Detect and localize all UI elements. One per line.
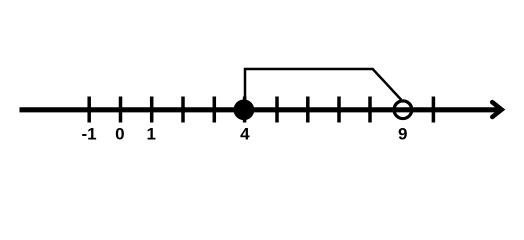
tick 0 bbox=[119, 97, 123, 123]
svg-text:9: 9 bbox=[398, 125, 407, 144]
tick -1 bbox=[87, 97, 91, 123]
arrowhead right bbox=[492, 102, 501, 117]
svg-text:1: 1 bbox=[146, 125, 155, 144]
open endpoint circle at 9 bbox=[394, 101, 412, 119]
tick 1 bbox=[150, 97, 154, 123]
svg-text:0: 0 bbox=[115, 125, 124, 144]
tick 8 bbox=[368, 97, 372, 123]
closed endpoint circle at 4 bbox=[234, 99, 255, 120]
tick 2 bbox=[181, 97, 185, 123]
interval bracket from 4 to 9 bbox=[245, 69, 401, 103]
tick 3 bbox=[213, 97, 217, 123]
number line axis bbox=[20, 107, 499, 112]
tick 7 bbox=[337, 97, 341, 123]
svg-text:-1: -1 bbox=[81, 125, 96, 144]
tick 6 bbox=[306, 97, 310, 123]
tick 5 bbox=[275, 97, 279, 123]
tick 10 bbox=[432, 97, 436, 123]
tick 4 bbox=[243, 97, 247, 123]
svg-text:4: 4 bbox=[240, 125, 250, 144]
